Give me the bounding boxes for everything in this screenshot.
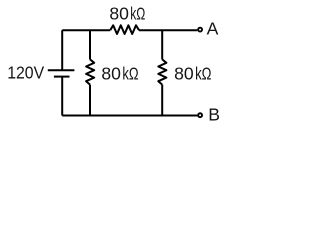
svg-text:80: 80 xyxy=(174,64,194,84)
svg-text:kΩ: kΩ xyxy=(130,4,145,24)
svg-text:80: 80 xyxy=(109,4,129,24)
svg-text:B: B xyxy=(208,105,220,125)
svg-text:80: 80 xyxy=(101,64,121,84)
svg-text:120V: 120V xyxy=(7,63,44,83)
svg-text:kΩ: kΩ xyxy=(122,64,138,84)
svg-text:A: A xyxy=(207,19,219,39)
svg-text:kΩ: kΩ xyxy=(195,64,211,84)
